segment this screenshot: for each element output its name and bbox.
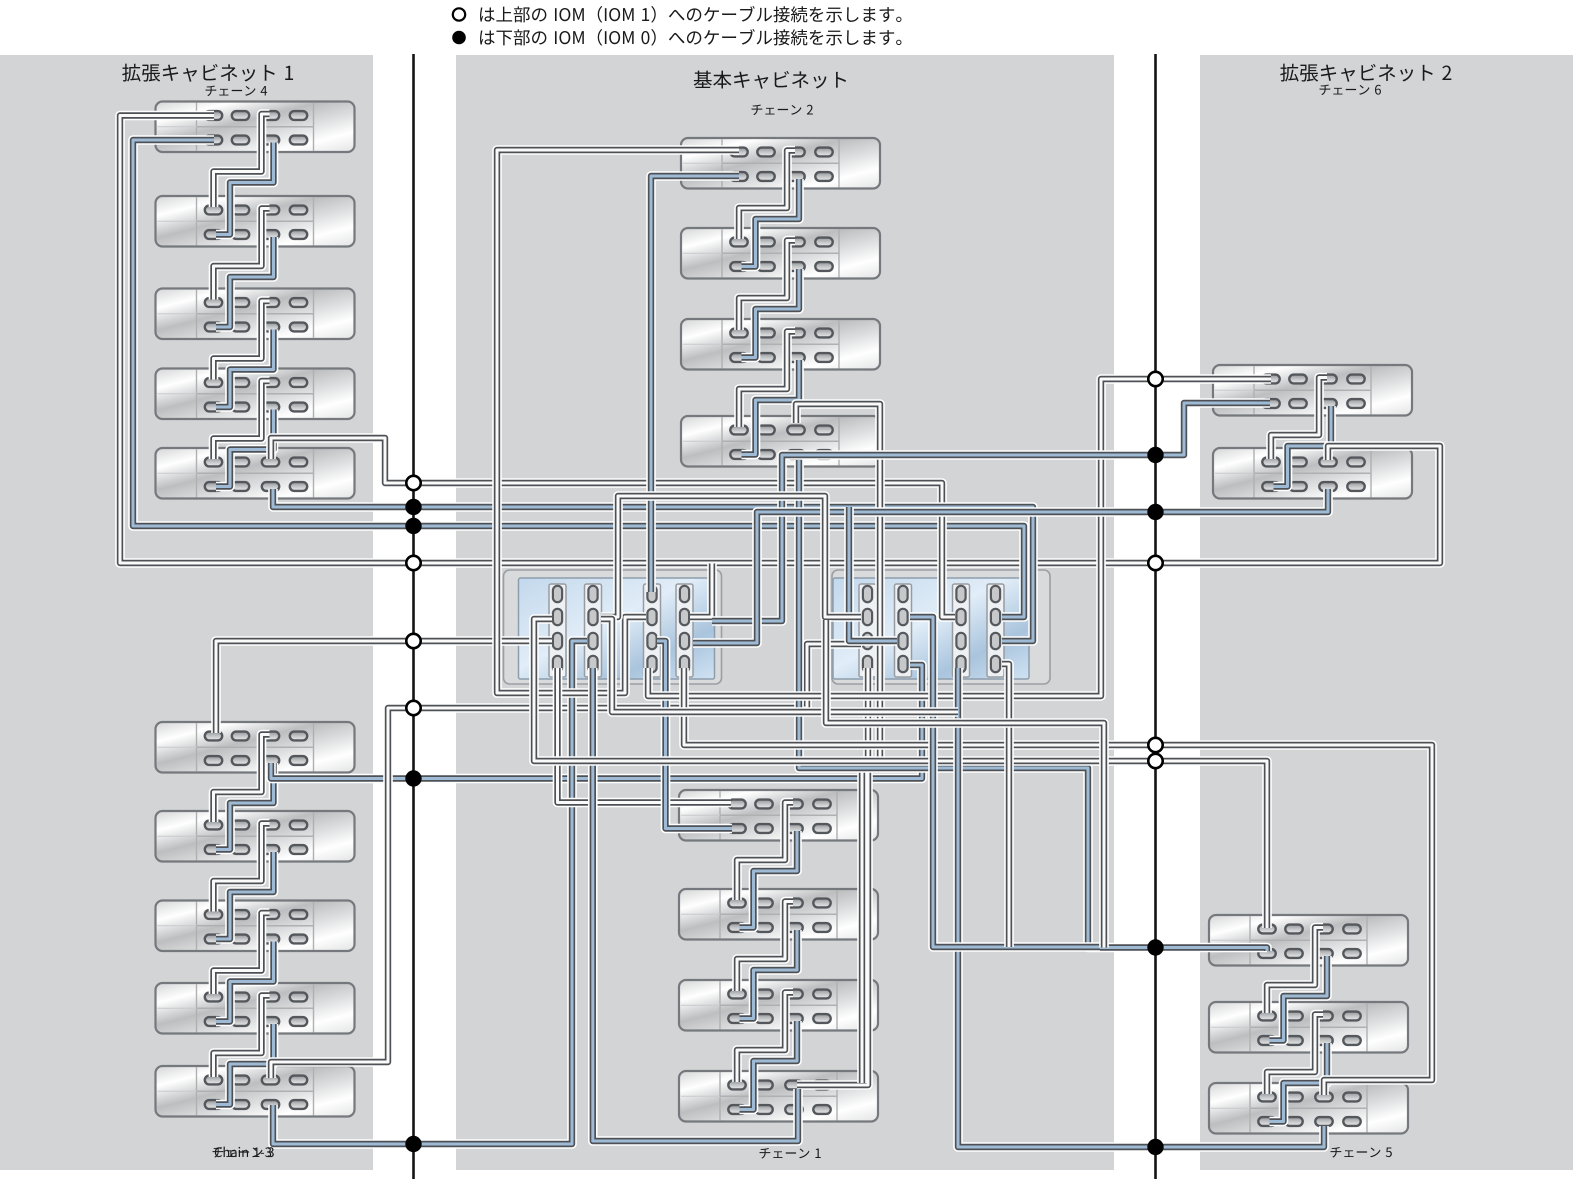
label chain 6 bbox=[1320, 85, 1331, 96]
wire MB1 IOM1 port3 to MB2 IOM1 port1 bbox=[737, 803, 793, 901]
wire RB2 IOM0 port3 to RB3 IOM0 port1 bbox=[1270, 1043, 1328, 1122]
title base cabinet bbox=[694, 71, 712, 88]
legend IOM1 text bbox=[480, 8, 495, 22]
disk shelf chain4 shelf 3 bbox=[156, 289, 355, 340]
wire LB3 IOM0 port3 to LB4 IOM0 port1 bbox=[216, 942, 274, 1022]
wire LB1 IOM1 port3 to LB2 IOM1 port1 bbox=[214, 735, 270, 823]
wire head1 HBA4 to chain5 shelf3 IOM1 (run y745) bbox=[684, 668, 1432, 1095]
disk shelf chain1 shelf 2 bbox=[679, 889, 878, 940]
wire RB2 IOM1 port3 to RB3 IOM1 port1 bbox=[1267, 1015, 1323, 1095]
IOM1 open junction dot left line y=641 bbox=[406, 634, 420, 648]
wire LT1 IOM0 port3 to LT2 IOM0 port1 bbox=[216, 143, 274, 235]
disk shelf chain6 shelf 2 bbox=[1213, 448, 1412, 499]
wire chain3 shelf5 IOM0 to head1 HBA2 (run y1144) bbox=[273, 641, 587, 1144]
IOM0 filled junction dot left line y=778.5 bbox=[405, 770, 421, 786]
disk shelf chain3 shelf 4 bbox=[156, 983, 355, 1034]
legend IOM0 text bbox=[480, 31, 495, 45]
disk shelf chain4 shelf 2 bbox=[156, 196, 355, 247]
disk shelf chain5 shelf 2 bbox=[1209, 1002, 1408, 1053]
expansion cabinet 2 panel bbox=[1200, 55, 1573, 1170]
wire head1 HBA3 to chain6 shelf1 IOM1 (runs y696,y379) bbox=[648, 379, 1271, 696]
title expansion cabinet 2 bbox=[1280, 64, 1298, 82]
disk shelf chain3 shelf 3 bbox=[156, 901, 355, 952]
wire RB1 IOM1 port3 to RB2 IOM1 port1 bbox=[1267, 928, 1323, 1014]
wire MT1 IOM1 port3 to MT2 IOM1 port1 bbox=[739, 151, 795, 240]
wire RB1 IOM0 port3 to RB2 IOM0 port1 bbox=[1270, 956, 1328, 1041]
controller head 2 bbox=[832, 570, 1050, 684]
IOM0 filled junction dot left line y=526 bbox=[405, 518, 421, 534]
wire chain1 shelf4 IOM0 to head1 HBA2 bbox=[593, 668, 798, 1141]
wire head1 HBA1 to chain5 shelf1 IOM1 (run y761) bbox=[534, 619, 1267, 928]
IOM0 filled junction dot right line y=1147 bbox=[1147, 1139, 1163, 1155]
expansion cabinet 1 panel bbox=[0, 55, 373, 1170]
disk shelf chain3 shelf 5 bbox=[156, 1066, 355, 1117]
wire LB2 IOM0 port3 to LB3 IOM0 port1 bbox=[216, 852, 274, 939]
wire MB1 IOM0 port3 to MB2 IOM0 port1 bbox=[740, 831, 798, 928]
wire LB2 IOM1 port3 to LB3 IOM1 port1 bbox=[214, 824, 270, 912]
disk shelf chain4 shelf 4 bbox=[156, 369, 355, 420]
wire chain3 shelf1 IOM1 to head1 HBA1 (run y641) bbox=[216, 641, 552, 733]
IOM0 filled junction dot left line y=507 bbox=[405, 499, 421, 515]
wire MB3 IOM0 port3 to MB4 IOM0 port1 bbox=[740, 1021, 798, 1110]
wire head2 HBA3 to chain5 shelf3 IOM0 (run y1147) bbox=[958, 668, 1324, 1147]
base cabinet panel bbox=[456, 55, 1114, 1170]
label chain 5 bbox=[1331, 1147, 1342, 1158]
disk shelf chain5 shelf 3 bbox=[1209, 1083, 1408, 1134]
wire MB2 IOM0 port3 to MB3 IOM0 port1 bbox=[740, 930, 798, 1019]
disk shelf chain2 shelf 1 bbox=[681, 138, 880, 189]
IOM1 open junction dot right line y=745 bbox=[1148, 738, 1162, 752]
wire chain2 shelf4 IOM0 to chain5 shelf1 IOM0 (run y947) bbox=[799, 460, 1267, 951]
wire MT2 IOM1 port3 to MT3 IOM1 port1 bbox=[739, 241, 795, 331]
wire head1 HBA4 to chain6 shelf2 IOM0 (run y512) bbox=[693, 489, 1328, 643]
title expansion cabinet 1 bbox=[122, 64, 140, 82]
wire head2 HBA2 feeder (x933) bbox=[910, 617, 1100, 947]
wire LB1 IOM0 port3 to LB2 IOM0 port1 bbox=[216, 763, 274, 850]
IOM0 filled junction dot right line y=455 bbox=[1147, 447, 1163, 463]
legend IOM1 open circle bbox=[453, 8, 465, 20]
IOM0 filled junction dot left line y=1144 bbox=[405, 1136, 421, 1152]
wire LT4 IOM1 port3 to LT5 IOM1 port1 bbox=[214, 381, 270, 459]
disk shelf chain5 shelf 1 bbox=[1209, 915, 1408, 966]
wire RT1 IOM0 port3 to RT2 IOM0 port1 bbox=[1274, 406, 1332, 487]
disk shelf chain3 shelf 1 bbox=[156, 722, 355, 773]
IOM1 open junction dot left line y=708 bbox=[406, 701, 420, 715]
disk shelf chain4 shelf 5 bbox=[156, 448, 355, 499]
wire chain4 shelf5 IOM0 to head2 HBA4 (run y507) bbox=[273, 489, 1033, 641]
IOM1 open junction dot right line y=563 bbox=[1148, 556, 1162, 570]
disk shelf chain6 shelf 1 bbox=[1213, 365, 1412, 416]
disk shelf chain1 shelf 1 bbox=[679, 790, 878, 841]
wire RT1 IOM1 port3 to RT2 IOM1 port1 bbox=[1271, 378, 1327, 460]
wire chain4 shelf5 IOM1 to head2 HBA3 (run y483) bbox=[271, 438, 955, 617]
wire chain4 shelf1 IOM0 to head2 HBA4 (long run y526) bbox=[133, 140, 1024, 617]
disk shelf chain1 shelf 4 bbox=[679, 1071, 878, 1122]
IOM0 filled junction dot right line y=947.5 bbox=[1147, 939, 1163, 955]
wire LT2 IOM0 port3 to LT3 IOM0 port1 bbox=[216, 237, 274, 327]
wire chain2 shelf1 IOM1 to head1 HBA3 port2 bbox=[497, 150, 739, 693]
wire LT1 IOM1 port3 to LT2 IOM1 port1 bbox=[214, 114, 270, 207]
IOM1 open junction dot right line y=379 bbox=[1148, 372, 1162, 386]
disk shelf chain2 shelf 4 bbox=[681, 416, 880, 467]
wire head1 HBA1 to chain1 shelf1 IOM1 bbox=[558, 668, 732, 803]
wire head2 HBA4 port4 drop (x1009) bbox=[1002, 664, 1009, 947]
wire MT2 IOM0 port3 to MT3 IOM0 port1 bbox=[742, 269, 800, 358]
IOM1 open junction dot left line y=563 bbox=[406, 556, 420, 570]
wire chain2 shelf4 IOM1 drop (x880/x862) bbox=[796, 404, 880, 1083]
disk shelf chain4 shelf 1 bbox=[156, 102, 355, 153]
wire LT4 IOM0 port3 to LT5 IOM0 port1 bbox=[216, 410, 274, 487]
wire head2 HBA2 port3 feeder (x849) bbox=[849, 507, 897, 641]
wire chain4 shelf1 IOM1 to chain6 shelf2 IOM1 (long run y563) bbox=[120, 116, 1440, 564]
disk shelf chain3 shelf 2 bbox=[156, 811, 355, 862]
wire chain3 shelf5 IOM1 to head2 HBA1 (run y708) bbox=[271, 644, 861, 1078]
label chain 1 bbox=[760, 1148, 771, 1159]
IOM1 open junction dot left line y=483 bbox=[406, 476, 420, 490]
disk shelf chain1 shelf 3 bbox=[679, 980, 878, 1031]
wire chain1 shelf4 IOM1 to head2 HBA1 bbox=[797, 668, 868, 1085]
legend IOM0 filled circle bbox=[452, 31, 466, 45]
label chain 2 bbox=[752, 105, 763, 116]
label chain 4 bbox=[206, 86, 217, 97]
wire head1 HBA4 to chain6 shelf1 IOM0 (run y455) bbox=[712, 403, 1270, 621]
wire head1 HBA2 port2 to head2 HBA1 port2 (run y496) bbox=[601, 496, 861, 617]
cabinet boundary line right bbox=[1154, 54, 1157, 1179]
controller head 1 bbox=[504, 570, 722, 684]
wire LB3 IOM1 port3 to LB4 IOM1 port1 bbox=[214, 913, 270, 994]
disk shelf chain2 shelf 3 bbox=[681, 319, 880, 370]
wire head1 HBA2 to head2 HBA3 (run y712) bbox=[601, 619, 958, 712]
wire head1 HBA3 to chain1 shelf1 IOM0 bbox=[657, 641, 732, 829]
wire LT3 IOM0 port3 to LT4 IOM0 port1 bbox=[216, 330, 274, 408]
IOM1 open junction dot right line y=761 bbox=[1148, 754, 1162, 768]
wire MT3 IOM0 port3 to MT4 IOM0 port1 bbox=[742, 360, 800, 455]
wire chain3 shelf1 IOM0 to head2 HBA2 (run y778) bbox=[271, 665, 922, 779]
wire MT3 IOM1 port3 to MT4 IOM1 port1 bbox=[739, 332, 795, 428]
cabinet boundary line left bbox=[412, 54, 415, 1179]
wire chain2 shelf1 IOM0 to head1 HBA3 port1 bbox=[651, 176, 739, 592]
IOM0 filled junction dot right line y=512 bbox=[1147, 504, 1163, 520]
wire MT1 IOM0 port3 to MT2 IOM0 port1 bbox=[742, 179, 800, 267]
wire head2 HBA1 drop (run y723) bbox=[826, 620, 1104, 948]
wire MB3 IOM1 port3 to MB4 IOM1 port1 bbox=[737, 993, 793, 1083]
wire LB4 IOM1 port3 to LB5 IOM1 port1 bbox=[214, 996, 270, 1078]
wire LB4 IOM0 port3 to LB5 IOM0 port1 bbox=[216, 1024, 274, 1105]
disk shelf chain2 shelf 2 bbox=[681, 228, 880, 279]
wire head1 HBA4 port2 riser (x712) bbox=[690, 564, 712, 618]
wire LT2 IOM1 port3 to LT3 IOM1 port1 bbox=[214, 209, 270, 300]
wire MB2 IOM1 port3 to MB3 IOM1 port1 bbox=[737, 902, 793, 992]
wire LT3 IOM1 port3 to LT4 IOM1 port1 bbox=[214, 301, 270, 380]
label chain 3 overlapped bbox=[213, 1147, 224, 1158]
